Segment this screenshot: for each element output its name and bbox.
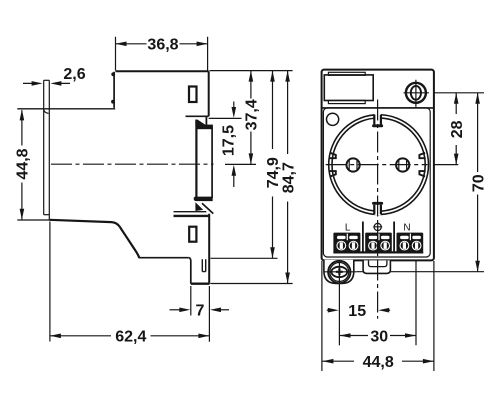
front view: release tab inner xyxy=(369,260,387,266)
dimension 84,7 line and arrows xyxy=(287,71,289,284)
front view: right side notch wedges xyxy=(419,153,425,158)
svg-text:2,6: 2,6 xyxy=(63,66,85,83)
front view: left pin hole xyxy=(347,158,360,171)
front view: inner face border xyxy=(323,108,430,257)
dimension 74,9 line and arrows xyxy=(272,71,274,259)
side view: bottom horizontal to foot xyxy=(139,257,189,259)
dimension 74,9 bottom extension xyxy=(211,257,278,259)
side view: front face vertical upper xyxy=(208,71,210,116)
front view: module outline xyxy=(322,70,434,261)
side view: top edge xyxy=(116,70,209,72)
side view: foot left edge xyxy=(189,258,191,284)
front view: foot flange xyxy=(324,260,354,284)
front view: terminal group earth xyxy=(365,233,392,252)
side view: back plate left line xyxy=(43,80,45,214)
dimension 62,4 extension line left xyxy=(49,222,51,342)
dimension 2,6 arrows xyxy=(23,82,70,84)
dimension 7 extension lines xyxy=(191,286,210,342)
front view: foot screw center tick xyxy=(336,268,343,275)
svg-text:L: L xyxy=(345,222,351,233)
side view: claw top tooth xyxy=(195,120,206,126)
side view: front step at 17.5 level xyxy=(186,115,209,117)
side view: upper vent slot xyxy=(189,87,197,103)
side view: back plate right line xyxy=(48,80,50,220)
front view: gap walls xyxy=(363,222,394,253)
center extension line at y=164.4 xyxy=(225,163,256,165)
front view: terminal group L xyxy=(333,233,360,252)
svg-text:28: 28 xyxy=(449,120,466,138)
svg-text:15: 15 xyxy=(348,303,366,320)
front view: bottom extension x=321.9 for 44,8 xyxy=(321,261,323,371)
svg-text:62,4: 62,4 xyxy=(115,329,146,346)
side view: claw lower diagonal xyxy=(202,203,213,213)
side view: rail claw top bar xyxy=(197,125,213,130)
front view: foot screw centerline extension xyxy=(338,284,340,346)
dimension 15 arrows (outside) xyxy=(327,309,329,311)
side view: rail claw right bar xyxy=(211,127,213,198)
front view: socket outer ring xyxy=(329,115,429,215)
side view: lower vent slot xyxy=(189,227,196,242)
dimension 44,8 bottom extension xyxy=(17,219,49,221)
front view: label holder top lip xyxy=(328,72,365,75)
front view: earth symbol xyxy=(374,223,381,230)
dimension 36,8 line and arrows xyxy=(116,43,208,45)
side view: foot slot xyxy=(202,259,205,271)
side view: rail claw left bar xyxy=(195,120,197,201)
front view: terminal group N xyxy=(397,233,424,252)
front view: earth notch top xyxy=(372,114,383,128)
top shared extension line xyxy=(210,70,293,72)
front view: center dash-dot vertical xyxy=(377,100,379,319)
svg-text:44,8: 44,8 xyxy=(15,148,32,179)
front view: label holder bottom lip xyxy=(328,100,365,103)
dimension 44,8 line and arrows xyxy=(322,360,434,362)
svg-text:30: 30 xyxy=(370,328,388,345)
svg-text:44,8: 44,8 xyxy=(363,354,394,371)
side view: bottom diagonal xyxy=(120,227,139,258)
front view: funnel circle xyxy=(327,113,339,125)
side view: foot bottom xyxy=(191,283,210,285)
dimension 28 line and arrows xyxy=(455,93,457,165)
front view: foot screw circles xyxy=(328,261,350,283)
svg-text:36,8: 36,8 xyxy=(147,37,178,54)
dimension 17,5 top extension xyxy=(209,117,242,119)
side view: back plate top cap xyxy=(44,79,50,81)
dimension 37,4 line and arrows xyxy=(250,71,252,165)
dimension 84,7 bottom extension xyxy=(211,283,293,285)
front view: center dash-dot horizontal xyxy=(326,164,428,166)
side view: back plate fillet xyxy=(44,110,49,114)
side view: lines under claw xyxy=(174,211,207,213)
front view: release tab xyxy=(363,260,390,273)
dimension 70 line and arrows xyxy=(477,93,479,272)
dimension 44,8 line and arrows xyxy=(21,110,23,219)
dimension 17,5 arrows (outside) xyxy=(233,102,235,109)
front view: top screw circles xyxy=(406,83,426,103)
front view: right pin hole xyxy=(396,158,409,171)
front view: extension line y=164.6 to 28 dim xyxy=(429,164,458,166)
svg-text:7: 7 xyxy=(196,302,205,319)
dimension 36,8 extension lines xyxy=(116,37,208,71)
svg-text:84,7: 84,7 xyxy=(280,162,297,193)
svg-text:70: 70 xyxy=(470,174,487,192)
dimension 30 line and arrows xyxy=(340,335,417,337)
front view: earth notch bottom xyxy=(372,202,383,215)
front view: separation line xyxy=(322,107,434,109)
side view: bottom edge sloped xyxy=(49,220,120,227)
front view: bottom extension x=433.9 for 44,8 xyxy=(433,261,435,371)
side view: top claw vertical at back xyxy=(113,72,115,108)
side view: top claw bumps xyxy=(111,72,115,76)
svg-text:N: N xyxy=(403,222,410,233)
side view: front face vertical lower xyxy=(208,214,210,284)
front view: foot screw cross xyxy=(324,261,357,284)
svg-text:37,4: 37,4 xyxy=(244,99,261,130)
side view: center line dash-dot xyxy=(51,163,214,165)
svg-text:17,5: 17,5 xyxy=(221,125,238,156)
dimension 62,4 line and arrows xyxy=(50,335,210,337)
front view: socket inner ring xyxy=(332,118,425,211)
side view: back plate bottom jog xyxy=(44,214,50,216)
front view: left side notch wedges xyxy=(330,153,336,158)
side view: step to claw connector xyxy=(205,116,207,125)
front view: screw centerline vertical x=416 xyxy=(415,107,417,345)
front view: extension line y=92.8 to 28/70 dims xyxy=(429,92,484,94)
side view: upper horizontal (44.8 top) xyxy=(17,108,115,110)
dimension 7 arrows (outside) xyxy=(170,309,180,311)
side view: claw bottom tooth xyxy=(195,202,203,211)
front view: top screw cross xyxy=(404,80,429,107)
front view: label holder card xyxy=(324,75,373,101)
front view: terminal ledge xyxy=(333,251,423,253)
side view: rail claw bottom bar xyxy=(194,197,213,202)
front view: extension line y=271.7 to 70 dim xyxy=(357,271,485,273)
